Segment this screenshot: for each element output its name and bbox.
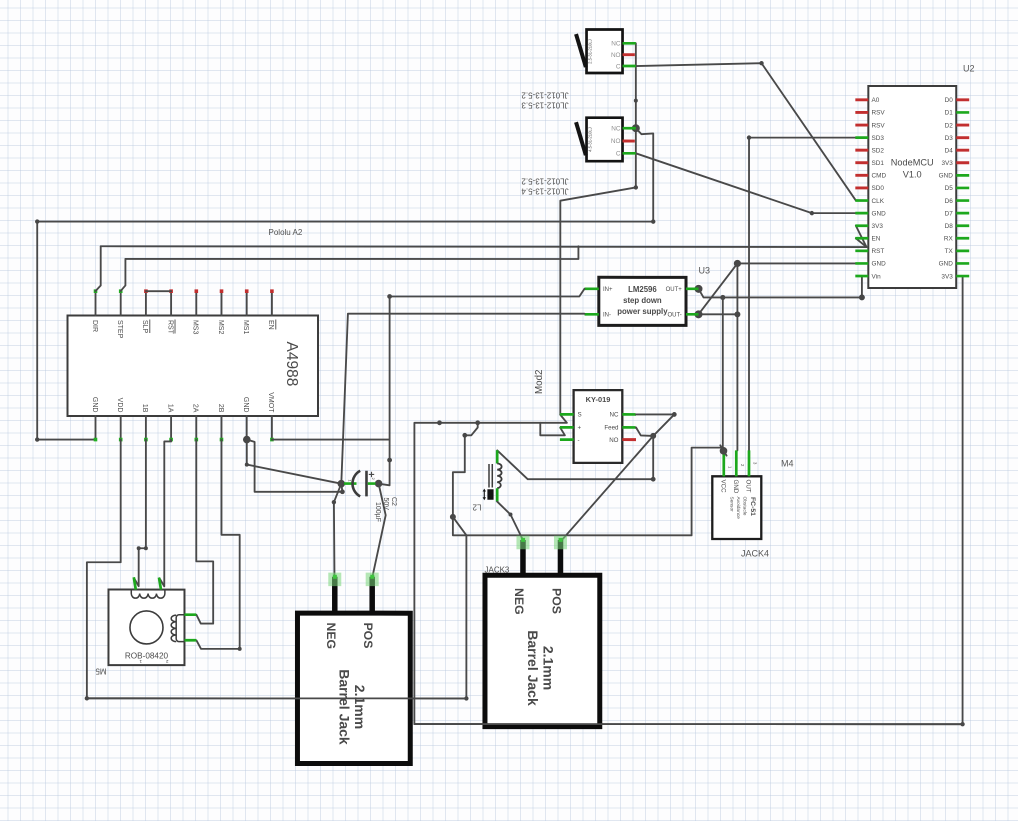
wire diagonal from EN stub to RST corner: [856, 238, 867, 247]
A4988 top pin STEP: [120, 291, 122, 315]
wire IN+ hook: [390, 289, 585, 297]
node junction GND wire: [734, 260, 741, 267]
svg-text:STEP: STEP: [116, 320, 123, 339]
node junction on staircase: [450, 514, 456, 520]
U2 pin D4 (right 5): [956, 149, 969, 152]
svg-text:JL012-13-5.2: JL012-13-5.2: [521, 177, 569, 186]
U2 pin GND (left 10): [855, 212, 868, 215]
svg-text:U2: U2: [963, 64, 975, 74]
motor pin 3 stub: [184, 613, 196, 616]
svg-text:VCC: VCC: [719, 480, 726, 494]
A4988 top pin EN: [271, 291, 273, 315]
barrel jack JACK3 body: [485, 536, 600, 727]
JACK1 POS pin: [369, 577, 375, 613]
svg-text:NEG: NEG: [324, 622, 338, 649]
svg-text:Vin: Vin: [872, 273, 882, 280]
C2 negative lead: [344, 482, 357, 485]
svg-text:C2: C2: [390, 497, 397, 506]
wire staircase from S-line down to 5V rail: [453, 423, 722, 536]
U2 pin SD3 (left 4): [855, 136, 868, 139]
node bend on GND wire: [810, 211, 814, 215]
svg-text:EN: EN: [872, 236, 881, 243]
switch S1 lever: [576, 34, 586, 67]
svg-text:M4: M4: [781, 459, 794, 469]
svg-text:C: C: [616, 63, 621, 70]
A4988 top pin MS1: [246, 291, 248, 315]
svg-text:Feed: Feed: [604, 425, 619, 432]
svg-text:3V3: 3V3: [872, 223, 884, 230]
svg-text:MS2: MS2: [217, 320, 224, 335]
svg-text:OUT: OUT: [745, 480, 752, 493]
wire KY-019 NC to JACK3 POS (long diagonal): [561, 414, 675, 541]
limit switch S1 body: [576, 30, 636, 74]
U2 pin TX (right 13): [956, 249, 969, 252]
svg-text:Barrel Jack: Barrel Jack: [525, 630, 541, 706]
svg-text:CLK: CLK: [872, 198, 885, 205]
wire 2B from A4988 to motor coil: [196, 440, 239, 649]
node C2 positive terminal: [375, 480, 383, 488]
wire GND2 jog down to C2 negative: [247, 440, 343, 492]
node A4988 GND2 junction: [243, 436, 251, 444]
svg-text:GND: GND: [939, 261, 954, 268]
A4988 bottom pin GND: [246, 416, 248, 440]
C2 straight plate: [365, 471, 368, 497]
svg-text:D5: D5: [945, 185, 954, 192]
wire SLP-RST tie: [146, 290, 171, 292]
node corner bottom right: [960, 722, 964, 726]
wire A4988 STEP line with jog: [125, 246, 578, 259]
node jog 1B: [144, 546, 148, 550]
wire VMOT to C2 positive drop: [272, 439, 390, 441]
svg-text:C: C: [616, 151, 621, 158]
node bend on SD3 wire: [747, 135, 751, 139]
svg-text:JL012-13-5.2: JL012-13-5.2: [521, 91, 569, 100]
node corner staircase: [462, 433, 467, 438]
wire GND2 short drop: [246, 440, 248, 465]
svg-text:MS3: MS3: [192, 320, 199, 335]
wire branch to KY-019 + pin: [540, 423, 565, 436]
wire SW2 NC zigzag to Pololu A2 loop via left rail to A4988 GND: [37, 128, 653, 439]
wire C2 positive to left jack POS: [372, 484, 385, 578]
wire SW2 C to NodeMCU GND: [636, 153, 856, 213]
node corner bottom rail left: [85, 696, 89, 700]
JACK1 pin highlights: [328, 573, 341, 587]
svg-text:SD1: SD1: [872, 160, 885, 167]
node corner left rail top: [35, 219, 39, 223]
svg-text:KY-019: KY-019: [586, 395, 611, 404]
U2 pin GND (right 14): [956, 262, 969, 265]
svg-text:Obstacle: Obstacle: [741, 497, 747, 516]
wire IN- to C2 negative: [341, 314, 584, 484]
U2 pin SD0 (left 8): [855, 186, 868, 189]
svg-text:1B: 1B: [141, 404, 148, 413]
L2 core lines: [488, 464, 490, 488]
capacitor C2: [337, 471, 382, 497]
svg-text:A4988: A4988: [283, 342, 300, 387]
L2 slug: [487, 489, 493, 499]
svg-text:MS1: MS1: [242, 320, 249, 335]
A4988 bottom pin 1A: [170, 416, 172, 440]
svg-text:Avoidance: Avoidance: [735, 497, 741, 520]
svg-text:JL012-13-5.4: JL012-13-5.4: [521, 187, 569, 196]
svg-text:EN: EN: [267, 320, 274, 330]
svg-text:IN+: IN+: [603, 287, 613, 293]
svg-text:GND: GND: [872, 210, 887, 217]
svg-text:POS: POS: [549, 588, 563, 614]
U2 pin D3 (right 4): [956, 136, 969, 139]
svg-text:NO: NO: [611, 138, 621, 145]
wire KY-019 Feed hook to junction: [636, 427, 653, 436]
wire bus bend down to KY-019 S: [560, 187, 636, 414]
switch S2 pin NO stub: [623, 140, 635, 143]
KY-019 pin S stub: [560, 413, 574, 416]
node corner left rail bottom: [35, 437, 39, 441]
wire VCC blob slash: [720, 445, 726, 455]
U3 pin IN- stub: [585, 313, 599, 316]
node junction on S line: [437, 420, 442, 425]
U2 pin D5 (right 8): [956, 187, 969, 190]
JACK3 NEG pin: [520, 540, 526, 575]
switch S2 lever: [576, 122, 586, 155]
KY-019 pin + stub: [560, 426, 574, 429]
node bend on CLK wire: [759, 61, 763, 65]
C2 plus sign: [369, 472, 374, 477]
A4988 top pin SLP: [145, 291, 147, 315]
svg-text:2: 2: [371, 477, 376, 480]
KY-019 pin NO stub: [622, 438, 636, 441]
motor pin 1 (green): [134, 577, 136, 589]
svg-text:A0: A0: [872, 97, 880, 104]
svg-text:V1.0: V1.0: [903, 170, 922, 180]
switch S2 pin NC stub: [623, 127, 636, 130]
svg-text:IN-: IN-: [603, 313, 611, 319]
svg-text:D6: D6: [945, 198, 954, 205]
svg-text:power supply: power supply: [617, 307, 668, 316]
U2 pin Vin (left 15): [855, 275, 868, 278]
C2 positive lead: [368, 482, 376, 485]
wire NodeMCU GND to LM2596 OUT-: [699, 263, 856, 314]
node corner bottom rail right: [464, 696, 468, 700]
wire S-line branch to KY-019 S pin: [540, 415, 567, 423]
svg-text:JACK4: JACK4: [741, 549, 769, 559]
wire 5V rail overlay across left jack: [87, 697, 467, 699]
svg-text:RSV: RSV: [872, 122, 886, 129]
wire branch diagonal to lower rail: [87, 440, 467, 699]
node junction at Vin drop: [859, 294, 865, 300]
A4988 bottom pin VDD: [120, 416, 122, 440]
motor top coil: [131, 590, 165, 599]
svg-text:100µF: 100µF: [374, 502, 381, 522]
node C2 negative terminal: [337, 480, 345, 488]
limit switch S2 body: [576, 118, 636, 162]
U2 pin 3V3 (right 6): [956, 161, 969, 164]
svg-text:SD0: SD0: [872, 185, 885, 192]
node corner at C2 riser: [340, 489, 345, 494]
svg-text:OUT-: OUT-: [667, 313, 681, 319]
U3 pin OUT+ stub: [686, 287, 699, 290]
wire L2 bottom to JACK3 NEG: [497, 502, 523, 541]
svg-text:SD2: SD2: [872, 147, 885, 154]
sensor module M4 FC-51 body: [712, 476, 761, 539]
svg-text:2.5-31-210LJ: 2.5-31-210LJ: [588, 39, 593, 64]
svg-text:Mod2: Mod2: [534, 369, 545, 394]
svg-text:D1: D1: [945, 110, 954, 117]
svg-text:JL012-13-5.3: JL012-13-5.3: [521, 100, 569, 109]
svg-text:NO: NO: [611, 52, 621, 59]
U2 pin A0 (left 1): [855, 98, 868, 101]
U2 pin D1 (right 2): [956, 111, 969, 114]
svg-text:GND: GND: [872, 261, 887, 268]
node small junction on vertical bus: [634, 99, 638, 103]
wire A4988 DIR line to NodeMCU EN/3V3/RST: [101, 245, 867, 248]
wire NodeMCU right 3V3 rail down and across bottom: [414, 276, 962, 724]
L2 coil: [497, 463, 501, 488]
node corner at Pololu wire: [651, 219, 655, 223]
node bend: [332, 500, 336, 504]
MCU module U2 NodeMCU body: [868, 86, 956, 288]
svg-text:1A: 1A: [166, 404, 173, 413]
U2 pin 3V3 (right 15): [956, 275, 969, 278]
svg-text:RST: RST: [872, 248, 885, 255]
svg-text:SD3: SD3: [872, 135, 885, 142]
barrel jack JACK1 (left) body: [297, 573, 410, 764]
wire 1A from A4988 to motor coil: [159, 440, 171, 587]
U2 pin RX (right 12): [956, 237, 969, 240]
svg-text:+: +: [577, 425, 581, 432]
svg-text:M5: M5: [95, 666, 107, 675]
node junction staircase on S line: [475, 420, 480, 425]
svg-text:GND: GND: [242, 397, 249, 413]
svg-text:OUT+: OUT+: [666, 287, 683, 293]
node LM2596 OUT- terminal: [695, 310, 703, 318]
wire LM2596 OUT+ to NodeMCU Vin: [699, 276, 862, 297]
svg-text:SLP: SLP: [141, 320, 148, 334]
wire C2 negative to left jack NEG: [334, 484, 341, 578]
power module U3 LM2596 body: [599, 277, 686, 325]
U2 pin D2 (right 3): [956, 124, 969, 127]
U2 pin D6 (right 9): [956, 199, 969, 202]
node junction Feed/diagonal: [650, 433, 656, 439]
node corner NC wire: [672, 412, 677, 417]
svg-text:D0: D0: [945, 97, 954, 104]
U2 pin D7 (right 10): [956, 212, 969, 215]
svg-text:NC: NC: [611, 41, 621, 48]
svg-text:2.1mm: 2.1mm: [540, 646, 556, 690]
A4988 bottom pin GND: [94, 416, 96, 440]
svg-text:GND: GND: [732, 480, 739, 494]
node LM2596 OUT+ terminal: [695, 285, 703, 293]
node corner 2B: [238, 647, 242, 651]
motor right coil: [176, 615, 184, 642]
svg-text:NC: NC: [610, 412, 619, 419]
C2 curved plate: [353, 471, 361, 497]
driver module A4988 body: [67, 315, 318, 416]
wire 1B from A4988 to motor coil: [134, 440, 146, 587]
JACK3 POS pin: [558, 540, 564, 575]
switch S1 pin C stub: [623, 65, 636, 68]
svg-text:2A: 2A: [192, 404, 199, 413]
U2 pin SD1 (left 6): [855, 161, 868, 164]
U2 pin RSV (left 2): [855, 111, 868, 114]
wire junction down to L2 top: [497, 436, 653, 479]
wire IN+ drop to C2 positive: [379, 296, 390, 485]
JACK1 NEG pin: [332, 577, 338, 613]
KY-019 pin NC stub: [622, 413, 636, 416]
wire 3V3 bottom rail overlay across JACK3: [414, 723, 962, 725]
relay module KY-019 body: [574, 390, 623, 463]
U2 pin GND (left 14): [855, 262, 868, 265]
node corner IN+ line: [387, 294, 392, 299]
A4988 bottom pin 2B: [220, 416, 222, 440]
FC-51 pin GND stub: [735, 450, 738, 476]
A4988 bottom pin VMOT: [271, 416, 273, 440]
node VCC blob junction: [720, 447, 728, 455]
svg-text:ROB-08420: ROB-08420: [125, 651, 169, 660]
U2 pin GND (right 7): [956, 174, 969, 177]
L2 top lead: [496, 450, 499, 463]
svg-text:3V3: 3V3: [941, 273, 953, 280]
svg-text:CMD: CMD: [872, 173, 887, 180]
svg-text:D8: D8: [945, 223, 954, 230]
U2 pin D8 (right 11): [956, 224, 969, 227]
svg-text:POS: POS: [361, 622, 375, 648]
node junction FC51 VCC feed: [720, 295, 725, 300]
svg-text:-: -: [577, 437, 579, 444]
svg-text:Sensor: Sensor: [729, 497, 735, 513]
A4988 top pin RST: [170, 291, 172, 315]
svg-text:LM2596: LM2596: [628, 285, 657, 294]
wire diagonal from 3V3 stub to RST corner: [856, 226, 867, 247]
wire SW1 NC/C vertical bus down to switch SW2 area: [635, 43, 637, 187]
U2 pin RSV (left 3): [855, 124, 868, 127]
motor pin 2 (green): [159, 578, 161, 590]
svg-text:RX: RX: [944, 236, 954, 243]
stepper motor M5 ROB-08420 body: [108, 590, 184, 666]
node bend: [508, 512, 512, 516]
svg-text:L2: L2: [472, 502, 481, 511]
node junction on drop: [387, 458, 392, 463]
svg-text:GND: GND: [939, 173, 954, 180]
svg-text:D2: D2: [945, 122, 954, 129]
node corner at L2 feed: [651, 477, 656, 482]
U2 pin EN (left 12): [855, 237, 868, 240]
svg-text:Pololu A2: Pololu A2: [269, 228, 303, 237]
wire GND2 long diagonal to C2 negative: [247, 465, 342, 484]
svg-text:RSV: RSV: [872, 110, 886, 117]
U2 pin 3V3 (left 11): [855, 224, 868, 227]
svg-text:1: 1: [727, 466, 732, 469]
wire STEP riser: [121, 259, 126, 291]
node bend: [634, 185, 638, 189]
switch S1 pin NO stub: [623, 53, 635, 56]
KY-019 pin - stub: [560, 438, 574, 441]
node bend: [245, 463, 249, 467]
switch S1 pin NC stub: [623, 42, 636, 45]
wire FC-51 OUT up to NodeMCU SD3: [749, 138, 856, 451]
KY-019 pin Feed stub: [622, 426, 636, 429]
wire LM2596 OUT- horizontal: [699, 313, 738, 315]
svg-text:TX: TX: [945, 248, 954, 255]
svg-text:D3: D3: [945, 135, 954, 142]
svg-text:VDD: VDD: [116, 398, 123, 413]
U2 pin SD2 (left 5): [855, 149, 868, 152]
svg-text:2.1mm: 2.1mm: [352, 685, 368, 729]
svg-text:NC: NC: [611, 126, 621, 133]
U2 pin RST (left 13): [855, 249, 868, 252]
svg-text:NEG: NEG: [512, 588, 526, 615]
svg-text:4.5-31-210LJ: 4.5-31-210LJ: [588, 127, 593, 152]
A4988 bottom pin 2A: [195, 416, 197, 440]
svg-text:2: 2: [740, 464, 745, 467]
svg-text:DIR: DIR: [91, 320, 98, 332]
A4988 top pin MS3: [195, 291, 197, 315]
svg-text:D7: D7: [945, 210, 954, 217]
svg-text:2B: 2B: [217, 404, 224, 413]
svg-text:FC-51: FC-51: [749, 497, 756, 516]
node junction on OUT- branch: [734, 311, 740, 317]
svg-text:RST: RST: [166, 320, 173, 335]
svg-text:NodeMCU: NodeMCU: [891, 158, 934, 168]
svg-text:3V3: 3V3: [941, 160, 953, 167]
svg-text:step down: step down: [623, 296, 662, 305]
svg-text:S: S: [577, 412, 581, 419]
A4988 top pin MS2: [221, 291, 223, 315]
A4988 top pin DIR: [95, 291, 97, 315]
U2 pin CLK (left 9): [855, 199, 868, 202]
U3 pin IN+ stub: [585, 287, 599, 290]
U2 pin CMD (left 7): [855, 174, 868, 177]
wire GND vertical down to FC-51 GND: [736, 263, 738, 450]
wire DIR riser: [96, 246, 101, 291]
switch S2 pin C stub: [623, 152, 636, 155]
svg-text:NO: NO: [609, 437, 618, 444]
node big junction at SW2 NC: [632, 124, 640, 132]
L2 adjust arrow: [483, 491, 485, 497]
JACK3 pin highlights: [516, 536, 529, 550]
A4988 bottom pin 1B: [145, 416, 147, 440]
svg-text:JACK3: JACK3: [484, 565, 509, 574]
FC-51 pin VCC stub: [722, 450, 725, 476]
wire 2A from A4988 to motor coil: [196, 440, 213, 624]
svg-text:3: 3: [753, 462, 758, 465]
svg-text:D4: D4: [945, 147, 954, 154]
svg-text:U3: U3: [699, 266, 711, 276]
FC-51 pin OUT stub: [748, 450, 751, 476]
wire SW1 C to NodeMCU CLK: [636, 63, 856, 200]
inductor L2: [483, 450, 502, 501]
wire VCC vertical down to FC-51: [723, 297, 724, 450]
L2 bottom lead: [496, 488, 499, 502]
svg-text:VMOT: VMOT: [267, 392, 274, 413]
motor pin 4 stub: [184, 639, 196, 642]
U2 pin D0 (right 1): [956, 98, 969, 101]
svg-text:Barrel Jack: Barrel Jack: [336, 669, 352, 745]
svg-text:GND: GND: [91, 397, 98, 413]
U3 pin OUT- stub: [686, 313, 699, 316]
